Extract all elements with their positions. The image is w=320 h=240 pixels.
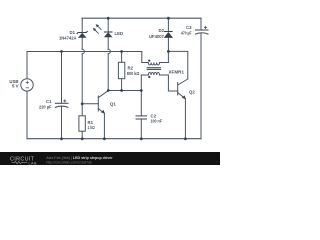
svg-text:LAB: LAB — [29, 161, 37, 165]
svg-text:1N4742A: 1N4742A — [59, 36, 77, 41]
svg-text:5 V: 5 V — [12, 84, 19, 89]
svg-text:800 kΩ: 800 kΩ — [127, 71, 140, 76]
svg-text:1 kΩ: 1 kΩ — [88, 125, 96, 130]
svg-text:C1: C1 — [46, 99, 52, 104]
svg-text:UF4007: UF4007 — [149, 34, 165, 39]
svg-text:R1: R1 — [88, 120, 94, 125]
svg-text:Q2: Q2 — [189, 89, 195, 94]
svg-text:http://circuitlab.com/c/3at7ab: http://circuitlab.com/c/3at7ab — [46, 160, 92, 164]
svg-text:LED: LED — [115, 31, 124, 36]
svg-text:100 nF: 100 nF — [151, 118, 163, 123]
svg-text:470 µF: 470 µF — [181, 31, 192, 36]
svg-text:XFMR1: XFMR1 — [169, 70, 185, 75]
svg-text:D1: D1 — [70, 30, 76, 35]
svg-text:220 µF: 220 µF — [39, 105, 52, 110]
svg-text:Q1: Q1 — [110, 102, 116, 107]
svg-text:C3: C3 — [186, 25, 192, 30]
svg-text:D2: D2 — [159, 28, 165, 33]
